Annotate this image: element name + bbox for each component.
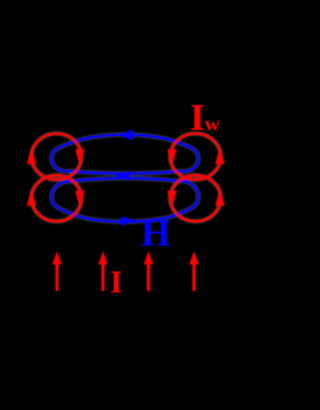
halo glow layer xyxy=(32,134,221,222)
winding turn circle 4 (bottom-right) xyxy=(167,175,224,221)
label I (current) xyxy=(110,264,122,300)
current arrow 3 xyxy=(144,251,153,291)
svg-text:I: I xyxy=(190,97,205,139)
arrowhead top arc (left) xyxy=(118,130,133,140)
svg-text:I: I xyxy=(110,264,122,300)
current arrow 2 xyxy=(98,251,107,291)
winding turn circle 2 (bottom-left) xyxy=(27,175,85,221)
current arrow 4 xyxy=(189,251,198,291)
arrowhead bottom arc (right, H direction) xyxy=(121,216,136,226)
svg-text:w: w xyxy=(205,112,221,136)
label H (field) xyxy=(141,213,171,255)
field line loop B lower xyxy=(52,178,199,222)
arrowhead middle band (left) xyxy=(114,171,130,181)
winding turn circle 3 (top-right) xyxy=(167,134,224,180)
winding turn circle 1 (top-left) xyxy=(27,134,85,180)
current arrow 1 xyxy=(52,251,61,291)
svg-text:H: H xyxy=(141,213,171,255)
label Iw (winding current) xyxy=(190,97,221,139)
field line loop B upper xyxy=(52,135,199,174)
